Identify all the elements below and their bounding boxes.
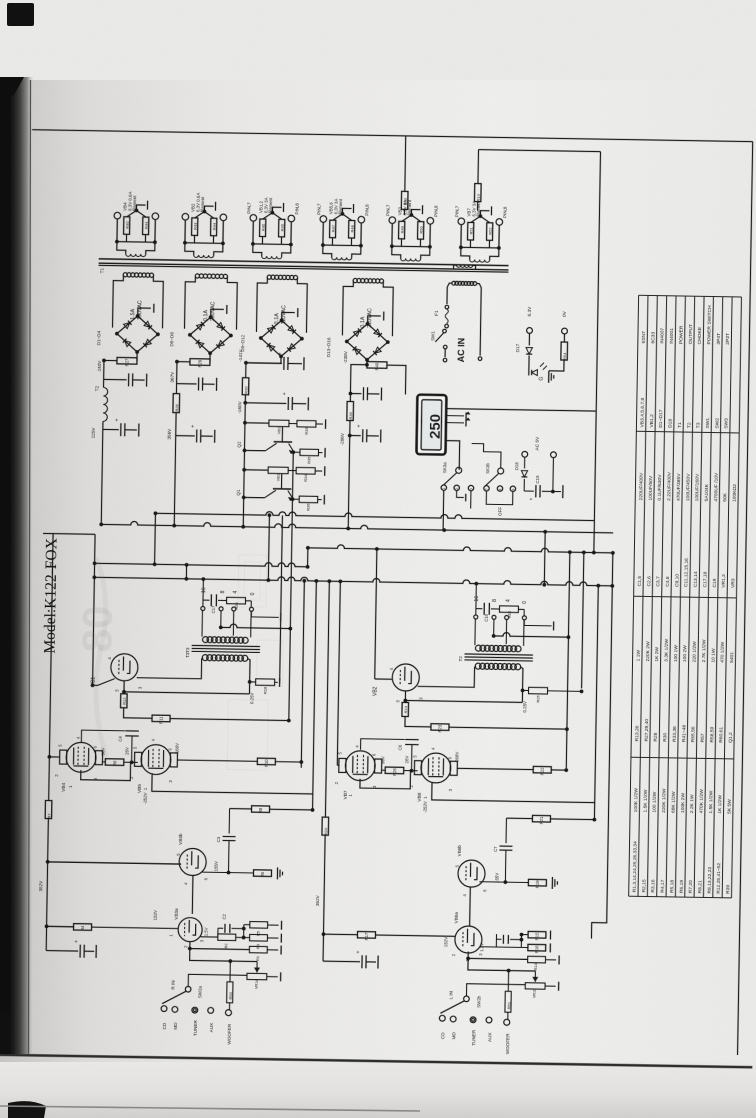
resistor R35 xyxy=(291,450,295,454)
bridge rectifier D1-D4 xyxy=(137,316,158,334)
capacitor C3 xyxy=(228,809,230,834)
resistor R12 xyxy=(123,681,125,694)
capacitor C9 xyxy=(103,428,119,430)
resistor R40 xyxy=(367,362,387,369)
wire B+ drop T3 xyxy=(202,579,204,600)
wire vertical x598 xyxy=(594,586,598,820)
wire R27 left to rail xyxy=(104,359,117,361)
terminal tap 8 xyxy=(219,607,223,611)
wire chain x100 lower xyxy=(101,421,103,524)
input jack MD right xyxy=(450,1016,456,1022)
resistor R40 xyxy=(124,217,130,235)
wire vertical x307 xyxy=(307,548,309,567)
resistor R44 xyxy=(143,217,149,235)
capacitor C18 snubber xyxy=(476,608,482,610)
capacitor C4 xyxy=(81,730,124,743)
resistor R17 xyxy=(357,932,375,939)
transformer winding 190VAC xyxy=(123,273,127,277)
wire bridge3 bottom xyxy=(246,356,281,364)
table separator V-C xyxy=(636,431,739,433)
contact 3 xyxy=(468,485,473,490)
resistor R22 xyxy=(533,766,551,773)
table row line xyxy=(731,297,741,898)
wire vertical x268 xyxy=(268,515,269,580)
table row line xyxy=(638,295,648,896)
input jack TUNER left xyxy=(192,1007,198,1013)
wire SK3b off loop xyxy=(486,491,513,505)
table row line xyxy=(647,296,657,897)
winding coil xyxy=(117,242,126,254)
table border right xyxy=(639,295,742,297)
wire rail y933 right xyxy=(323,933,357,936)
resistor R16 xyxy=(528,944,546,951)
wire vertical x316 xyxy=(313,581,317,810)
resistor R53 xyxy=(404,136,407,191)
resistor R54 xyxy=(561,342,568,360)
table row line xyxy=(675,296,685,897)
wire SK3b common up xyxy=(471,444,501,468)
resistor R49 xyxy=(399,221,405,239)
wire center tap xyxy=(471,216,490,223)
wire R56 tap0 xyxy=(250,601,252,607)
wire R55 tap0 xyxy=(523,609,525,615)
wire VB8 bottom xyxy=(432,782,595,803)
resistor R48 xyxy=(349,220,355,238)
schematic border top line xyxy=(32,130,753,142)
wire meter line2 xyxy=(446,415,464,417)
transformer T2 primary coil xyxy=(475,663,481,669)
resistor R51 xyxy=(468,222,474,240)
wire VB4 cathode loop xyxy=(81,763,131,781)
winding coil xyxy=(185,243,194,255)
wire SK3a c3 xyxy=(470,491,472,509)
wire bridge1 tap xyxy=(138,308,151,316)
wire bridge1 bottom xyxy=(136,352,138,361)
input jack WOOFER right xyxy=(504,1019,510,1025)
fuse F1 xyxy=(445,305,449,309)
vacuum tube VB7 xyxy=(345,751,375,781)
wire VB3b down to VB3a xyxy=(191,876,194,914)
wire VB5 plate to R10 xyxy=(178,760,257,761)
contact 2 xyxy=(454,485,459,490)
table row line xyxy=(629,295,639,896)
resistor R43 xyxy=(192,218,198,236)
capacitor C16 xyxy=(350,393,361,395)
terminal tap 16 xyxy=(201,606,205,610)
vacuum tube VB3a xyxy=(178,917,202,941)
capacitor C13 xyxy=(244,395,246,403)
wire chain x347 lower xyxy=(348,436,350,529)
wire center tap xyxy=(127,210,146,217)
resistor R18 xyxy=(250,681,256,683)
transformer winding 220VAC xyxy=(353,278,357,282)
wire center tap xyxy=(402,215,421,222)
vacuum tube VB3b xyxy=(179,848,206,875)
wire C18 tap16 xyxy=(475,609,477,615)
wire resistor bottoms xyxy=(400,239,402,246)
terminal tap 0 right xyxy=(522,616,526,620)
terminal tap 4 right xyxy=(505,616,509,620)
resistor R36 xyxy=(291,497,295,501)
terminal AC 5V a xyxy=(522,451,528,457)
contact 1 xyxy=(441,485,446,490)
wire bridge2 tap xyxy=(211,309,224,317)
scanner black bottom-left piece xyxy=(0,1014,11,1054)
wire primary left to VB2 plate xyxy=(418,665,476,687)
wire vertical x612 xyxy=(591,553,612,939)
resistor R1 xyxy=(189,942,191,949)
capacitor C15 xyxy=(349,421,351,436)
resistor R14b xyxy=(480,946,528,949)
wire VB7 cathode loop xyxy=(360,771,411,789)
table separator C-R2 xyxy=(634,596,737,598)
resistor R50 xyxy=(229,961,231,982)
wire vertical x376 xyxy=(375,549,377,679)
resistor R24 xyxy=(404,691,406,702)
winding coil xyxy=(253,244,262,256)
wire center tap xyxy=(263,213,282,220)
input jack CD right xyxy=(439,1015,445,1021)
wire vertical x281 xyxy=(280,515,283,683)
wire switch to VR1a xyxy=(188,974,247,987)
wire vertical x186 xyxy=(185,565,187,579)
wire VB1 cathode to R11 xyxy=(124,708,153,718)
wire bridge2 bottom xyxy=(209,353,211,362)
winding coil xyxy=(323,245,332,257)
wire VB8 plate to R22 xyxy=(458,768,533,769)
paper left edge line xyxy=(29,80,31,1054)
table separator R2-R1 xyxy=(631,757,734,759)
wire SK3a c1 down xyxy=(442,490,445,530)
capacitor C17 snubber xyxy=(203,599,209,601)
transformer winding 280VAC xyxy=(195,274,199,278)
table border left xyxy=(629,896,732,898)
input jack WOOFER left xyxy=(225,1010,231,1016)
resistor R29 xyxy=(190,359,210,366)
resistor R31 xyxy=(245,422,269,424)
transformer T1 core lines xyxy=(99,259,509,266)
filament winding group VB1,2 xyxy=(250,215,257,222)
wire cathode to selector xyxy=(190,949,258,962)
wire chain x347 xyxy=(350,365,366,394)
resistor R9 between VB4 VB5 xyxy=(103,761,105,763)
wire vertical x329 right rail xyxy=(325,581,329,817)
ghost bleed-through curve xyxy=(92,557,109,757)
wire vertical x569 xyxy=(566,552,570,770)
filament winding group VB3 xyxy=(389,217,396,224)
wire Q1 emitter rail xyxy=(244,496,265,498)
wire PSU ground rail y527 xyxy=(101,521,613,533)
resistor R26 xyxy=(523,689,529,691)
wire tap4 down right xyxy=(505,620,507,645)
resistor R11 xyxy=(152,715,170,722)
wire meter bottom to SK3a xyxy=(445,441,459,470)
filament winding group VB5,6 xyxy=(320,216,327,223)
wire R4 to grid xyxy=(92,927,179,928)
transformer T2 secondary coil xyxy=(475,645,481,651)
resistor R15 xyxy=(528,931,546,938)
wire rail y533 left xyxy=(43,532,95,535)
contact 9 xyxy=(510,486,515,491)
capacitor C14 xyxy=(246,362,282,365)
bridge rectifier D9-D12 xyxy=(281,320,302,338)
vacuum tube VB6b xyxy=(458,860,485,887)
wire chain x173 lower xyxy=(174,436,175,526)
resistor R45 xyxy=(260,219,266,237)
resistor R14 xyxy=(474,184,481,202)
wire VB6b down to VB6a xyxy=(469,887,472,926)
ghost bleed-through digits xyxy=(73,605,121,652)
wire R40 to meter xyxy=(386,365,405,394)
wire bias output down xyxy=(289,452,293,720)
wire Q2 emitter rail xyxy=(244,449,265,451)
bottom edge faint line xyxy=(0,1106,420,1111)
wire B+ drop T2 xyxy=(475,584,477,609)
transformer T3 primary coil xyxy=(202,655,208,661)
resistor R23 xyxy=(431,724,449,731)
wire R29 left xyxy=(177,361,190,363)
wire resistor bottoms xyxy=(125,234,127,241)
winding coil xyxy=(461,247,470,259)
wire tap0 bar right xyxy=(524,620,551,626)
resistor R10 xyxy=(257,758,275,765)
resistor R51 xyxy=(507,971,509,992)
capacitor C11 xyxy=(175,413,177,436)
scanner black bar left xyxy=(0,77,34,1054)
table row line xyxy=(703,297,713,898)
transformer T3 core xyxy=(192,645,260,646)
terminal AC right xyxy=(478,357,482,361)
filament winding group VB4 xyxy=(114,212,121,219)
wire center tap xyxy=(333,214,352,221)
page fold bottom line xyxy=(0,1055,752,1068)
wire center tap xyxy=(195,211,214,218)
secondary small coil above T1 xyxy=(454,265,457,269)
resistor R39 xyxy=(349,394,351,402)
wire VB6b cathode R19 xyxy=(479,881,528,884)
table row line xyxy=(694,296,704,897)
wire bridge3 tap xyxy=(282,312,295,320)
wire R14 feed xyxy=(479,150,601,152)
page bottom strip below fold xyxy=(0,1062,756,1118)
table row line xyxy=(722,297,732,898)
wire VB4 grid left xyxy=(49,756,59,758)
potentiometer VR1b xyxy=(525,983,545,990)
resistor R3 xyxy=(236,936,250,938)
wire vertical x583 xyxy=(582,552,584,688)
resistor R19 xyxy=(528,879,546,886)
ghost bleed-through box xyxy=(227,555,285,771)
vacuum tube VB6a xyxy=(455,926,482,953)
wire tap4 down xyxy=(232,611,234,636)
resistor R46 xyxy=(279,219,285,237)
wire tap0 bar xyxy=(251,612,278,618)
table row line xyxy=(666,296,676,897)
terminal tap 16 right xyxy=(474,615,478,619)
transformer winding 110VAC xyxy=(267,275,271,279)
wire VB1 grid xyxy=(93,678,115,685)
resistor R8 xyxy=(252,806,270,813)
capacitor C5 xyxy=(46,950,78,953)
filament winding group VB7 xyxy=(458,218,465,225)
resistor R55 xyxy=(499,606,518,613)
wire R21 left xyxy=(506,817,532,819)
resistor R44 xyxy=(211,218,217,236)
filament winding group VB2 xyxy=(182,213,189,220)
vacuum tube VB1 xyxy=(111,654,138,681)
transformer winding AC mains primary xyxy=(452,281,456,285)
transformer T2 core xyxy=(465,654,533,655)
resistor R20 xyxy=(322,817,329,835)
bridge rectifier D13-D16 xyxy=(367,324,388,342)
wire primary right junction right xyxy=(519,667,523,703)
wire C17 tap16 xyxy=(202,600,204,606)
wire resistor bottoms xyxy=(261,237,263,244)
resistor R30 xyxy=(245,363,247,378)
wire AC5V b down xyxy=(552,458,555,492)
contact 7 xyxy=(484,486,489,491)
wire vertical x304 xyxy=(301,581,304,768)
wire VB2 grid xyxy=(375,678,392,680)
resistor R56 xyxy=(227,597,246,604)
wire R23 right xyxy=(449,727,567,729)
resistor R7 xyxy=(45,801,52,819)
wire cathode feedback left xyxy=(124,692,249,694)
wire R17 to grid xyxy=(375,935,455,936)
resistor R21 xyxy=(532,815,550,822)
terminal tap 0 xyxy=(249,607,253,611)
transformer enclosure right xyxy=(474,619,476,645)
resistor R4 xyxy=(74,924,92,931)
input jack AUX left xyxy=(208,1007,214,1013)
wire vertical x593 from R14 xyxy=(594,152,601,553)
input jack TUNER right xyxy=(470,1017,476,1023)
wire tap8 feedback right xyxy=(493,619,495,636)
wire R11 right xyxy=(170,719,289,721)
terminal tap 4 xyxy=(232,607,236,611)
wire chain x100 xyxy=(103,360,105,387)
wire vertical x94 xyxy=(93,534,96,685)
wire tap8 feedback xyxy=(220,611,222,628)
capacitor C2 xyxy=(218,927,223,929)
wire rail y566 xyxy=(95,560,308,567)
LED G indicator xyxy=(532,370,538,376)
resistor R25 between VB7 VB8 xyxy=(382,769,385,771)
wire VB3b cathode R6 xyxy=(201,871,253,874)
resistor R32 xyxy=(244,469,268,471)
transformer enclosure left xyxy=(201,610,203,636)
capacitor C7 xyxy=(505,818,507,843)
resistor R5 xyxy=(244,924,250,926)
table row line xyxy=(657,296,667,897)
wire primary right junction xyxy=(246,658,250,694)
capacitor C10 xyxy=(104,378,127,380)
wire meter line3 xyxy=(446,422,464,424)
wire resistor bottoms xyxy=(193,235,195,242)
wire primary left to VB1 plate xyxy=(137,657,203,679)
terminal tap 8 right xyxy=(492,615,496,619)
table row line xyxy=(685,296,695,897)
transformer T3 secondary coil xyxy=(203,637,209,643)
resistor R28 xyxy=(175,362,178,394)
wire rail y580 xyxy=(94,574,612,586)
resistor R6 xyxy=(253,870,271,877)
wire vertical x154 xyxy=(154,513,157,564)
capacitor C12 xyxy=(177,383,197,385)
wire VB6a cathode to selector xyxy=(468,958,536,971)
wire R54 to ground xyxy=(549,360,564,371)
wire rail y929.8 xyxy=(47,925,74,927)
wire VB7 grid left xyxy=(337,764,338,766)
wire resistor bottoms xyxy=(469,240,471,247)
vacuum tube VB4 xyxy=(66,742,96,772)
wire vertical x544 xyxy=(543,532,546,585)
resistor R52 xyxy=(487,223,493,241)
resistor R50 xyxy=(418,222,424,240)
scanner black corner top-left xyxy=(7,3,34,26)
vacuum tube VB2 right xyxy=(392,664,419,691)
table row line xyxy=(713,297,723,898)
vacuum tube VB5 xyxy=(141,744,171,774)
resistor R47 xyxy=(330,220,336,238)
wire SK3a c2 xyxy=(457,491,464,498)
wire VB2 cathode to R23 xyxy=(405,716,431,726)
wire bridge4 bottom xyxy=(366,360,368,365)
bridge rectifier D5-D8 xyxy=(210,317,231,335)
wire vertical x52 left rail xyxy=(49,534,53,801)
wire chain x242 xyxy=(243,403,245,527)
vacuum tube VB8 xyxy=(421,753,451,783)
wire x340 xyxy=(337,581,340,765)
resistor R33 xyxy=(289,423,297,425)
contact 8 xyxy=(497,486,502,491)
diode D17 xyxy=(526,348,533,355)
wire rail y547 xyxy=(308,544,613,553)
wire cathode feedback right xyxy=(405,700,522,702)
terminal AC 5V b xyxy=(551,452,557,458)
ground C19 xyxy=(562,485,564,498)
capacitor C8 right xyxy=(323,960,360,963)
capacitor C6 xyxy=(361,739,405,751)
input jack AUX right xyxy=(486,1017,492,1023)
schematic border right line xyxy=(738,142,753,1055)
scanner black blob bottom xyxy=(8,1101,46,1118)
wire switch to VR1b xyxy=(466,984,525,997)
wire bridge4 tap xyxy=(368,316,381,324)
wire meter line1 xyxy=(446,409,596,411)
potentiometer VR1a xyxy=(247,973,267,980)
capacitor C6b right input xyxy=(502,935,504,944)
wire R8 left xyxy=(230,808,252,810)
wire VB5 bottom xyxy=(152,773,313,794)
wire rail y515 xyxy=(155,510,594,521)
resistor R27 xyxy=(117,357,137,364)
wire resistor bottoms xyxy=(331,238,333,245)
switch SW1 xyxy=(443,329,447,333)
resistor R34 xyxy=(288,469,296,471)
voltmeter LCD module xyxy=(416,395,446,455)
wire rail y863 left xyxy=(48,862,181,864)
input jack CD left xyxy=(161,1006,167,1012)
input jack MD left xyxy=(172,1006,178,1012)
winding coil xyxy=(392,246,401,258)
resistor R2 xyxy=(200,936,217,938)
